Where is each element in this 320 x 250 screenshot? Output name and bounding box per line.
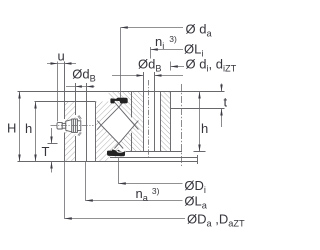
D_a arrow [65, 217, 72, 219]
inner ring unhatched strip [155, 92, 161, 152]
dim H line [19, 92, 21, 162]
D_i arrow [119, 182, 126, 184]
dim h left line [35, 102, 37, 162]
svg-text:h: h [201, 121, 208, 136]
ni arrow [151, 48, 158, 50]
svg-text:t: t [224, 94, 228, 109]
seal lower (dark) [107, 149, 125, 156]
di arrow [171, 65, 178, 67]
T step tick [48, 143, 58, 145]
H arrows [18, 92, 20, 99]
bottom leader n_a / L_a [86, 162, 183, 201]
inner bolt hole centerline [148, 80, 150, 157]
dim h right line [199, 92, 201, 152]
inner ring bolt hole right wall [154, 72, 156, 152]
inner ring bottom + h extension [126, 151, 206, 153]
outer ring unhatched strip [87, 102, 96, 162]
hatch boundary vertical right [160, 92, 162, 152]
dB left arrows [76, 85, 82, 87]
hatch boundary vertical [95, 102, 97, 162]
outer ring hatched section (left) [65, 102, 126, 162]
bottom leader D_a [65, 162, 186, 219]
svg-text:ØDi: ØDi [184, 178, 206, 195]
svg-text:u: u [58, 49, 65, 64]
crossed roller (diamond, white) [101, 107, 134, 143]
dim dB left dimension line [66, 86, 95, 88]
nipple centerline (dash-dot) [51, 125, 94, 127]
top face outer ring + h extension [35, 101, 96, 103]
da arrow [121, 26, 128, 28]
dim da leader [121, 28, 184, 98]
inner ring left face [131, 92, 133, 152]
dB right arrows [137, 74, 144, 76]
dimension u line [47, 63, 76, 65]
inner ring bolt hole left wall [143, 72, 145, 152]
svg-text:H: H [7, 121, 16, 136]
bottom leader D_i [119, 157, 183, 184]
top face inner ring + H and t extensions [18, 91, 225, 93]
dim di leader tick [171, 62, 185, 71]
nipple thread marks [78, 115, 82, 135]
inner ring right face [170, 92, 172, 152]
seal upper (dark) [110, 98, 127, 104]
dim dB right arrow lines [112, 75, 183, 77]
roller diamond outline with raceway extensions [101, 107, 134, 143]
grease nipple [57, 119, 81, 132]
outer ring bolt hole right wall [86, 83, 88, 162]
dim t lines [221, 84, 223, 128]
t arrows [220, 85, 222, 92]
recess step + t extension [171, 108, 225, 110]
dim ni / Li leader [151, 47, 184, 59]
T arrows [50, 137, 52, 144]
cover plate top line [110, 157, 198, 159]
svg-text:h: h [25, 121, 32, 136]
outer ring bolt hole left wall [75, 83, 77, 162]
inner ring bolt hole (white) [144, 92, 155, 152]
h right arrows [198, 92, 200, 99]
svg-text:T: T [42, 144, 50, 159]
n_a arrow [86, 199, 93, 201]
h left arrows [34, 102, 36, 109]
dimension u extension line (nipple tip) [57, 62, 59, 122]
dim T lines [51, 128, 53, 173]
outer ring left face [64, 62, 66, 162]
inner ring hatched section (right) [109, 92, 171, 152]
bearing axis (dash-dot) [181, 84, 183, 166]
bottom face line + extension [18, 161, 198, 163]
outer ring bolt hole (white) [76, 102, 87, 162]
u arrows [51, 62, 58, 64]
plate end tick [197, 155, 199, 164]
